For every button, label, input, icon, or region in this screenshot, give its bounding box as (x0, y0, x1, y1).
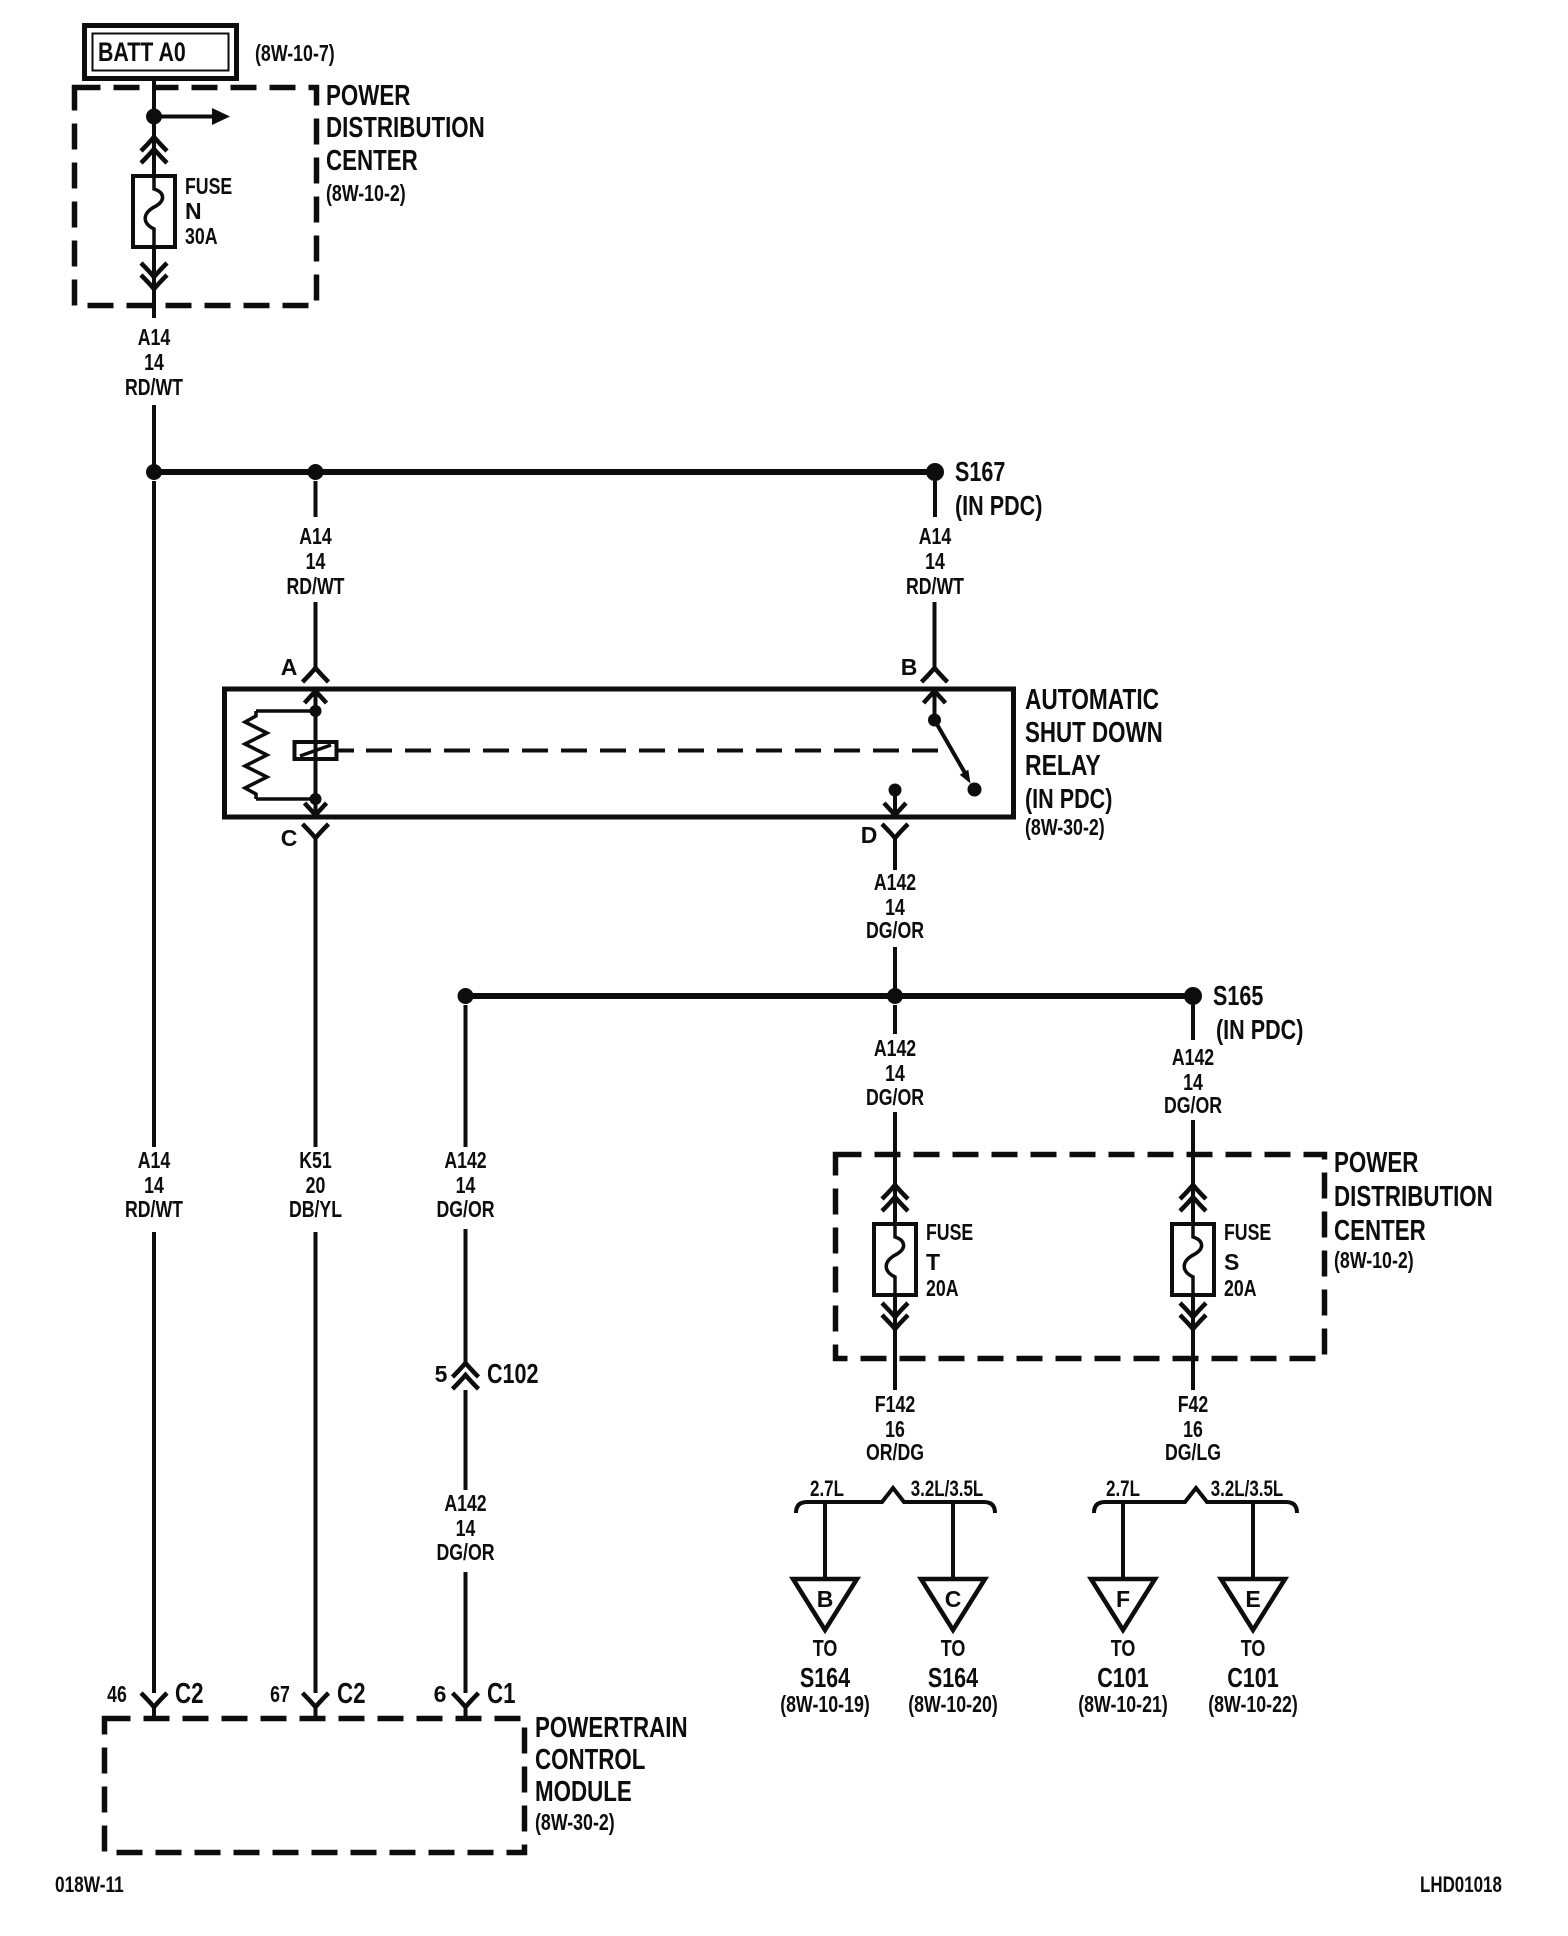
svg-text:DG/OR: DG/OR (436, 1539, 494, 1565)
svg-text:(8W-10-21): (8W-10-21) (1078, 1691, 1168, 1717)
wire to off-page connector C (951, 1502, 955, 1579)
svg-text:20A: 20A (1224, 1275, 1257, 1301)
wire label F142 16 OR/DG (866, 1391, 924, 1465)
wire down to PCM pin 6 (464, 1572, 468, 1693)
label FUSE T 20A (926, 1219, 973, 1301)
svg-text:C101: C101 (1227, 1662, 1279, 1693)
svg-text:A142: A142 (874, 869, 916, 895)
svg-text:20: 20 (306, 1172, 326, 1198)
svg-text:C102: C102 (487, 1358, 539, 1389)
svg-text:14: 14 (456, 1515, 476, 1541)
svg-text:RD/WT: RD/WT (125, 374, 183, 400)
svg-text:C: C (945, 1586, 962, 1612)
power distribution center box (top, dashed) (75, 88, 317, 306)
wire down to connector C102 (464, 1229, 468, 1363)
svg-text:BATT A0: BATT A0 (98, 37, 186, 67)
svg-text:6: 6 (434, 1681, 447, 1707)
splice S167 bus wire (154, 469, 935, 475)
connector C102 pin 5 (435, 1358, 539, 1389)
wire left branch below S165 bus (464, 1005, 468, 1147)
wire to off-page connector B (823, 1502, 827, 1579)
svg-text:14: 14 (456, 1172, 476, 1198)
svg-text:A142: A142 (1172, 1044, 1214, 1070)
label S167 (IN PDC) (955, 456, 1042, 521)
wire label F42 16 DG/LG (1165, 1391, 1221, 1465)
wire label A14 14 RD/WT (below PDC) (125, 324, 183, 400)
wire to off-page connector F (1121, 1502, 1125, 1579)
svg-text:SHUT DOWN: SHUT DOWN (1025, 717, 1163, 749)
svg-text:DISTRIBUTION: DISTRIBUTION (326, 112, 485, 144)
PCM pin 46 connector C2 (107, 1678, 203, 1718)
wire label A14 14 RD/WT (to relay pin A) (287, 523, 345, 599)
svg-text:TO: TO (1111, 1635, 1136, 1661)
off-page connector B (793, 1579, 857, 1630)
label FUSE N 30A (185, 173, 232, 249)
svg-text:2.7L: 2.7L (810, 1476, 844, 1501)
svg-text:K51: K51 (299, 1147, 332, 1173)
wire down to splice bus S165 (893, 947, 897, 996)
pin A arrowhead inside relay (305, 691, 327, 703)
wire label K51 20 DB/YL (289, 1147, 342, 1222)
wire coil bottom branch (256, 797, 316, 801)
svg-text:(8W-10-22): (8W-10-22) (1208, 1691, 1298, 1717)
relay coil box (295, 742, 337, 759)
fuse T 20A (874, 1224, 916, 1295)
connector chevrons above fuse T (882, 1185, 908, 1211)
connector chevrons below fuse T (882, 1303, 908, 1329)
svg-text:(8W-10-2): (8W-10-2) (326, 180, 406, 206)
svg-text:2.7L: 2.7L (1106, 1476, 1140, 1501)
svg-text:C1: C1 (487, 1678, 516, 1710)
junction dot coil bottom (310, 793, 322, 805)
switch contact dot (968, 783, 982, 797)
svg-text:A142: A142 (444, 1490, 486, 1516)
svg-text:C2: C2 (175, 1678, 204, 1710)
relay coil wire A to C (314, 691, 318, 815)
svg-text:(8W-30-2): (8W-30-2) (535, 1809, 615, 1835)
wire to off-page connector E (1251, 1502, 1255, 1579)
svg-text:30A: 30A (185, 223, 218, 249)
svg-text:DG/OR: DG/OR (866, 1084, 924, 1110)
switch blade with arrowhead (935, 720, 971, 784)
pin A connector (281, 654, 329, 682)
svg-text:MODULE: MODULE (535, 1776, 632, 1808)
svg-text:N: N (185, 198, 202, 224)
arrow feed to other circuits (154, 108, 230, 125)
svg-text:(8W-10-2): (8W-10-2) (1334, 1247, 1414, 1273)
svg-text:DISTRIBUTION: DISTRIBUTION (1334, 1181, 1493, 1213)
svg-text:A142: A142 (444, 1147, 486, 1173)
wire label A14 14 RD/WT (to relay pin B) (906, 523, 964, 599)
svg-text:DG/LG: DG/LG (1165, 1439, 1221, 1465)
junction dot middle (887, 988, 903, 1004)
svg-text:CENTER: CENTER (1334, 1215, 1426, 1247)
svg-text:F: F (1116, 1586, 1130, 1612)
wire label A142 14 DG/OR (to fuse T) (866, 1035, 924, 1110)
pin C arrowhead inside relay (305, 803, 327, 815)
wire stub below middle dot (314, 481, 318, 517)
svg-text:S164: S164 (928, 1662, 979, 1693)
label POWER DISTRIBUTION CENTER (8W-10-2) lower (1334, 1147, 1493, 1273)
wire label A142 14 DG/OR (to PCM) (436, 1490, 494, 1565)
svg-text:(IN PDC): (IN PDC) (955, 490, 1042, 521)
svg-text:14: 14 (144, 1172, 164, 1198)
svg-text:A14: A14 (299, 523, 332, 549)
svg-text:RD/WT: RD/WT (125, 1196, 183, 1222)
svg-text:A14: A14 (919, 523, 952, 549)
svg-text:3.2L/3.5L: 3.2L/3.5L (1211, 1476, 1284, 1501)
wire label A14 14 RD/WT (left long run) (125, 1147, 183, 1222)
switch pivot dot (928, 714, 941, 727)
svg-text:C101: C101 (1097, 1662, 1149, 1693)
svg-text:14: 14 (925, 548, 945, 574)
svg-text:POWER: POWER (1334, 1147, 1418, 1179)
connector chevrons above fuse S (1180, 1185, 1206, 1211)
svg-text:F42: F42 (1178, 1391, 1209, 1417)
powertrain control module box (dashed) (105, 1719, 525, 1853)
wire below middle dot (893, 1005, 897, 1034)
label TO S164 (8W-10-19) (780, 1635, 870, 1717)
dashed actuation line (337, 749, 947, 753)
engine split bracket (F42) (1094, 1476, 1297, 1513)
label FUSE S 20A (1224, 1219, 1271, 1301)
svg-text:S167: S167 (955, 456, 1005, 487)
svg-text:F142: F142 (875, 1391, 915, 1417)
svg-text:OR/DG: OR/DG (866, 1439, 924, 1465)
svg-text:E: E (1245, 1586, 1260, 1612)
node BATT A0 box (85, 26, 237, 79)
svg-text:RD/WT: RD/WT (287, 573, 345, 599)
wire pin D down (893, 838, 897, 870)
wire stub below S167 (933, 481, 937, 517)
svg-text:AUTOMATIC: AUTOMATIC (1025, 684, 1159, 716)
junction dot in PDC (146, 109, 162, 125)
resistor relay coil (245, 711, 267, 799)
pin D arrowhead inside relay (884, 803, 906, 815)
wire into PDC to fuse T (893, 1112, 897, 1224)
pin B connector (901, 654, 948, 682)
svg-text:S165: S165 (1213, 980, 1263, 1011)
svg-text:5: 5 (435, 1361, 448, 1387)
wire pin C down to PCM (314, 838, 318, 1147)
relay automatic shut down relay box (225, 689, 1014, 817)
svg-text:DB/YL: DB/YL (289, 1196, 342, 1222)
junction dot left (458, 988, 474, 1004)
svg-text:(IN PDC): (IN PDC) (1025, 783, 1112, 814)
fuse N 30A (133, 176, 175, 247)
svg-text:POWER: POWER (326, 80, 410, 112)
svg-text:TO: TO (1241, 1635, 1266, 1661)
wire down to splice bus (152, 405, 156, 472)
svg-text:TO: TO (941, 1635, 966, 1661)
svg-text:FUSE: FUSE (926, 1219, 973, 1245)
svg-text:14: 14 (306, 548, 326, 574)
connector chevrons below fuse N (141, 263, 167, 289)
connector chevrons below fuse S (1180, 1303, 1206, 1329)
svg-text:3.2L/3.5L: 3.2L/3.5L (911, 1476, 984, 1501)
svg-text:(8W-10-7): (8W-10-7) (255, 40, 335, 66)
svg-text:DG/OR: DG/OR (1164, 1092, 1222, 1118)
splice S165 dot (1184, 987, 1202, 1005)
wire A14 down to PCM pin 46 (152, 481, 156, 1693)
splice S165 bus wire (466, 993, 1194, 999)
wire out of PDC bottom (152, 246, 156, 318)
svg-text:(IN PDC): (IN PDC) (1216, 1014, 1303, 1045)
label POWER DISTRIBUTION CENTER (8W-10-2) (326, 80, 485, 206)
svg-text:TO: TO (813, 1635, 838, 1661)
svg-text:B: B (817, 1586, 834, 1612)
wire dot to pin D (893, 790, 897, 815)
svg-text:A14: A14 (138, 1147, 171, 1173)
svg-text:CENTER: CENTER (326, 145, 418, 177)
svg-text:S164: S164 (800, 1662, 851, 1693)
svg-text:(8W-10-20): (8W-10-20) (908, 1691, 998, 1717)
svg-text:C2: C2 (337, 1678, 366, 1710)
wire label A142 14 DG/OR (to fuse S) (1164, 1044, 1222, 1118)
wire from BATT A0 into PDC (152, 79, 156, 176)
svg-text:B: B (901, 654, 918, 680)
wire stub below S165 (1191, 1005, 1195, 1040)
wire label A142 14 DG/OR (pin D) (866, 869, 924, 943)
svg-text:A: A (281, 654, 298, 680)
svg-text:DG/OR: DG/OR (436, 1196, 494, 1222)
wire below C102 (464, 1390, 468, 1490)
svg-text:(8W-30-2): (8W-30-2) (1025, 814, 1105, 840)
PCM pin 6 connector C1 (434, 1678, 516, 1718)
pin D connector below relay (861, 822, 908, 848)
label AUTOMATIC SHUT DOWN RELAY (IN PDC) (8W-30-2) (1025, 684, 1163, 840)
svg-text:67: 67 (270, 1681, 290, 1707)
PCM pin 67 connector C2 (270, 1678, 365, 1718)
svg-text:A142: A142 (874, 1035, 916, 1061)
svg-text:DG/OR: DG/OR (866, 917, 924, 943)
svg-text:D: D (861, 822, 878, 848)
power distribution center box (lower, dashed) (836, 1155, 1325, 1359)
label POWERTRAIN CONTROL MODULE (8W-30-2) (535, 1712, 688, 1835)
pin D contact dot (889, 784, 902, 797)
svg-text:C: C (281, 825, 298, 851)
svg-text:RD/WT: RD/WT (906, 573, 964, 599)
svg-text:14: 14 (144, 349, 164, 375)
svg-text:A14: A14 (138, 324, 171, 350)
wire to relay pin A (314, 602, 318, 668)
svg-text:T: T (926, 1249, 940, 1275)
off-page connector E (1221, 1579, 1285, 1630)
pin C connector below relay (281, 824, 329, 851)
wire to relay pin B (933, 602, 937, 668)
junction dot middle (308, 464, 324, 480)
svg-text:FUSE: FUSE (1224, 1219, 1271, 1245)
wire pin B to switch pivot (933, 691, 937, 720)
svg-text:S: S (1224, 1249, 1239, 1275)
svg-text:(8W-10-19): (8W-10-19) (780, 1691, 870, 1717)
label TO S164 (8W-10-20) (908, 1635, 998, 1717)
junction dot coil top (310, 705, 322, 717)
svg-text:POWERTRAIN: POWERTRAIN (535, 1712, 688, 1744)
fuse S 20A (1172, 1224, 1214, 1295)
off-page connector F (1091, 1579, 1155, 1630)
svg-text:FUSE: FUSE (185, 173, 232, 199)
wire out of fuse S (1191, 1295, 1195, 1390)
label S165 (IN PDC) (1213, 980, 1303, 1045)
wire out of fuse T (893, 1295, 897, 1390)
splice S167 dot (926, 463, 944, 481)
svg-text:14: 14 (885, 1060, 905, 1086)
svg-text:RELAY: RELAY (1025, 750, 1101, 782)
wire coil top branch (256, 709, 316, 713)
svg-text:CONTROL: CONTROL (535, 1744, 645, 1776)
svg-text:20A: 20A (926, 1275, 959, 1301)
engine split bracket (F142) (796, 1476, 995, 1513)
wire K51 from relay pin C to PCM pin 67 (314, 1232, 318, 1693)
label TO C101 (8W-10-21) (1078, 1635, 1168, 1717)
pin B arrowhead inside relay (924, 691, 946, 703)
wire label A142 14 DG/OR (to C102) (436, 1147, 494, 1222)
svg-text:LHD01018: LHD01018 (1420, 1872, 1502, 1897)
svg-text:018W-11: 018W-11 (55, 1872, 124, 1897)
junction dot left (146, 464, 162, 480)
svg-text:46: 46 (107, 1681, 127, 1707)
off-page connector C (921, 1579, 985, 1630)
connector chevrons above fuse N (141, 137, 167, 163)
wire into PDC to fuse S (1191, 1120, 1195, 1224)
label TO C101 (8W-10-22) (1208, 1635, 1298, 1717)
